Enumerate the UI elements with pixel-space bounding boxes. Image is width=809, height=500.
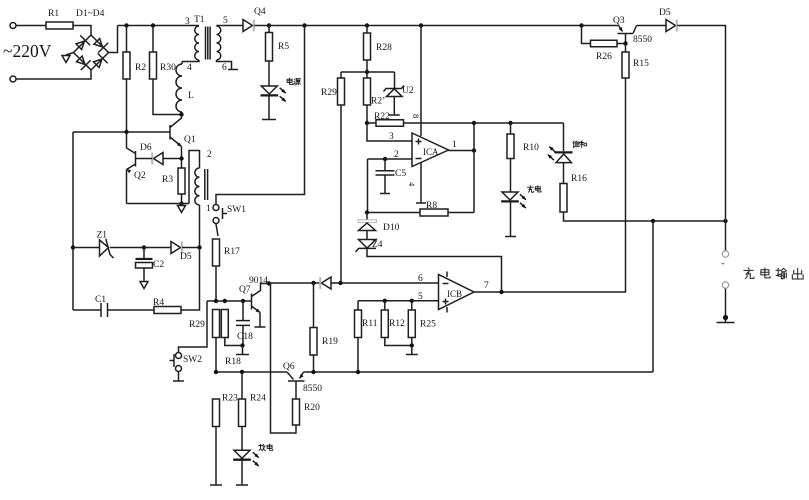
node junction Q4 output: [267, 23, 271, 27]
wire ICA output: [449, 150, 475, 152]
node junction R17 bottom / R29 top: [214, 299, 218, 303]
svg-text:C18: C18: [237, 332, 253, 342]
node junction Q3 emitter: [579, 23, 583, 27]
wire R30 top lead: [152, 26, 154, 53]
ground stub below SW2: [173, 380, 184, 382]
ground marker at bridge negative: [62, 56, 70, 63]
resistor R11: [355, 310, 362, 338]
wire bottom rail left: [216, 371, 287, 373]
node junction R28 top: [365, 23, 369, 27]
wire Z1 to C2 node: [110, 247, 144, 249]
wire junction to R29 and U2: [341, 71, 395, 73]
svg-text:R19: R19: [322, 337, 338, 347]
diode Q4: [243, 20, 253, 32]
svg-text:R4: R4: [153, 298, 164, 308]
resistor R30: [150, 52, 157, 79]
switch SW2 actuator: [173, 354, 175, 367]
node junction output negative: [723, 315, 728, 320]
wire R26 left hook: [582, 26, 591, 44]
svg-text:R2: R2: [135, 63, 146, 73]
node junction R2 bottom / Q1 base: [124, 130, 128, 134]
wire bottom loop left: [73, 309, 101, 311]
svg-text:Z4: Z4: [372, 240, 383, 250]
wire R10 to LED: [510, 159, 512, 193]
LED saturation arrows: [549, 147, 555, 153]
ground stub below discharge LED: [236, 484, 248, 486]
wire rail to saturation LED: [563, 123, 565, 151]
node junction R22 left / R27 bottom / ICA pin3: [365, 121, 369, 125]
wire ICB pin5 input: [358, 300, 439, 302]
node junction R28/R27/R29 top: [365, 70, 369, 74]
wire R28 bottom: [366, 60, 368, 78]
resistor R1: [46, 22, 73, 29]
resistor R22: [376, 120, 404, 127]
node junction Q6 emitter / R19: [311, 370, 315, 374]
node junction R25 top: [410, 299, 414, 303]
svg-text:4: 4: [187, 63, 192, 73]
node junction C18 bottom / R18: [240, 343, 244, 347]
op-amp ICB bottom tick: [446, 307, 448, 313]
wire ICA pin2 input: [368, 158, 413, 160]
bridge rectifier D1~D4 diamond: [74, 35, 109, 70]
wire bridge negative stub: [66, 53, 74, 56]
svg-text:5: 5: [223, 16, 228, 26]
node junction R30 top: [151, 23, 155, 27]
wire Q1 base net: [73, 131, 170, 133]
wire Q1 emitter to D6 node: [181, 147, 183, 159]
wire R1 to bridge top: [73, 26, 91, 36]
resistor R2: [123, 52, 130, 79]
switch SW1 blade: [216, 224, 218, 236]
node junction rail / R10 top: [508, 121, 512, 125]
transistor Q7 base bar: [251, 294, 253, 310]
winding W2 coil: [195, 168, 200, 205]
wire Q7 base net: [207, 300, 252, 302]
op-amp ICA body: [412, 133, 449, 167]
ground stub below Q7 emitter: [255, 326, 266, 328]
transistor Q6 base bar: [288, 380, 305, 382]
svg-text:R28: R28: [376, 43, 392, 53]
svg-text:R17: R17: [224, 247, 240, 257]
wire R5 to LED: [268, 61, 270, 86]
transistor Q3 collector: [633, 26, 637, 34]
wire R12 bottom lead: [385, 338, 412, 346]
transistor Q2 emitter: [127, 164, 136, 170]
node junction C18 top / Q7 base: [241, 299, 245, 303]
transformer T1 core: [205, 27, 207, 60]
svg-text:R24: R24: [250, 394, 266, 404]
node junction R11 bottom: [356, 370, 360, 374]
wire R22 left lead: [367, 122, 376, 124]
wire D10 to Z4: [366, 231, 368, 240]
wire Z4 to ICB output (hysteresis): [367, 248, 502, 292]
transistor Q1 base bar: [169, 125, 171, 140]
node junction Z1 branch: [71, 245, 75, 249]
wire W2 pin1 lead down: [199, 205, 201, 248]
wire Q4 to rail: [254, 25, 269, 27]
wire R20 to Q7 collector loop: [271, 284, 297, 434]
wire ICA pin3 input: [367, 123, 412, 141]
wire R29 bottom to rail: [215, 338, 217, 373]
svg-text:R15: R15: [633, 59, 649, 69]
svg-text:C1: C1: [95, 295, 106, 305]
label 充电输出 (charging output): [744, 268, 754, 279]
wire R8 right lead: [448, 212, 474, 214]
transformer T1 primary winding (pin3-pin4): [195, 26, 199, 60]
wire D6 anode to Q1 emitter: [163, 158, 182, 160]
op-amp ICB body: [439, 275, 475, 310]
diode D2 (bridge top-right arm): [92, 36, 108, 52]
wire pin6 net left: [269, 282, 320, 284]
wire Q2 emitter down: [126, 170, 128, 204]
node junction R29b/R23: [214, 370, 218, 374]
winding W2 pin2 hook: [189, 151, 200, 204]
wire ICB output: [474, 291, 626, 293]
diode D5 (snubber): [171, 242, 181, 254]
wire bridge output to top rail: [109, 26, 118, 53]
svg-text:Q3: Q3: [613, 16, 625, 26]
wire SW2 bottom stub: [178, 372, 180, 381]
wire ICA pin8 supply: [420, 26, 422, 137]
svg-text:Z1: Z1: [97, 231, 108, 241]
svg-text:2: 2: [394, 150, 399, 160]
LED power indicator: [261, 86, 277, 94]
wire R18 bottom lead: [225, 338, 243, 346]
op-amp ICA plus sign: [416, 141, 422, 143]
transistor Q2 collector: [127, 132, 136, 154]
label 充电 (charging): [527, 186, 533, 193]
wire reference rail: [404, 122, 564, 124]
diode D1 (bridge top-left arm): [74, 35, 90, 51]
wire pin2 to D10 node: [367, 159, 369, 213]
resistor R26: [591, 40, 618, 47]
wire R12 top lead: [384, 301, 386, 310]
wire Q3 collector to D5: [637, 25, 667, 27]
svg-text:R1: R1: [48, 9, 59, 19]
label 饱和 (saturation): [573, 141, 579, 147]
svg-text:Q1: Q1: [184, 135, 196, 145]
switch SW1 contact 1: [213, 205, 219, 211]
capacitor C5: [384, 159, 386, 171]
resistor R5: [266, 33, 273, 62]
svg-text:R22: R22: [374, 112, 390, 122]
resistor R24: [239, 399, 246, 427]
wire main top rail right: [269, 25, 619, 27]
wire R28 top lead: [366, 26, 368, 34]
diode D6: [154, 153, 164, 165]
LED saturation indicator: [555, 151, 573, 153]
node junction output positive rail: [723, 219, 727, 223]
winding W2 core: [204, 169, 206, 200]
svg-text:3: 3: [185, 17, 190, 27]
ground marker below C2: [140, 282, 148, 289]
svg-text:R2’: R2’: [371, 97, 385, 107]
svg-text:ICA: ICA: [423, 147, 439, 157]
wire main top rail left: [118, 25, 200, 27]
wire LED to ground stub: [241, 460, 243, 485]
svg-text:R18: R18: [225, 357, 241, 367]
resistor R18: [221, 310, 228, 338]
svg-text:9014: 9014: [249, 276, 268, 286]
node junction R3 bottom: [179, 201, 183, 205]
wire T1 pin4 lead: [182, 60, 199, 62]
svg-text:Q7: Q7: [239, 285, 251, 295]
wire LED to ground: [268, 96, 270, 120]
op-amp ICB plus sign: [443, 301, 449, 303]
resistor R4: [154, 307, 181, 314]
svg-text:D5: D5: [180, 252, 192, 262]
svg-text:R20: R20: [304, 403, 320, 413]
svg-text:R23: R23: [222, 394, 238, 404]
node junction ICB output / feedback: [499, 290, 503, 294]
wire output negative stub: [725, 289, 727, 323]
capacitor C18: [242, 301, 244, 320]
svg-text:ICB: ICB: [447, 289, 462, 299]
node junction R29top bottom: [338, 281, 342, 285]
wire L bottom lead: [181, 112, 184, 115]
zener U2: [394, 72, 396, 88]
wire R19 top lead: [313, 283, 315, 328]
resistor R8: [420, 209, 448, 216]
node junction Q3 base / R26 / R15: [623, 41, 627, 45]
wire R5 top lead: [268, 26, 270, 33]
svg-text:R8: R8: [426, 201, 437, 211]
switch SW2 contact 1: [176, 353, 182, 359]
wire ICA output to rail and R8: [473, 123, 475, 213]
wire R4 to riser: [181, 248, 200, 311]
wire R27 bottom lead: [366, 105, 368, 123]
svg-text:R26: R26: [596, 52, 612, 62]
wire R15 bottom long lead: [625, 78, 627, 292]
wire R15 top lead: [625, 44, 627, 53]
capacitor C1: [100, 303, 102, 317]
wire output positive drop: [725, 221, 727, 251]
wire Q7 emitter stub: [259, 313, 261, 327]
svg-text:C2: C2: [153, 260, 164, 270]
ground stub below R23: [210, 484, 222, 486]
wire L top lead: [181, 62, 183, 65]
LED discharge indicator: [234, 450, 250, 458]
transistor Q1 emitter: [170, 137, 182, 147]
wire T1 pin6 lead to ground: [217, 60, 232, 69]
wire R17 bottom lead: [215, 266, 217, 301]
wire R25 bottom lead: [411, 338, 413, 346]
wire R26 right lead: [617, 43, 626, 45]
node junction rail / ICA output feed: [472, 121, 476, 125]
svg-text:2: 2: [207, 150, 212, 160]
resistor R25: [408, 310, 415, 338]
node junction battery minus rail branch: [651, 219, 655, 223]
diode D10: [358, 220, 377, 223]
diode D11 (pin6 blocking): [322, 277, 332, 289]
svg-text:D5: D5: [659, 8, 671, 18]
wire D5 to output rail: [677, 26, 725, 222]
op-amp ICB minus sign: [443, 283, 449, 285]
resistor R15: [622, 52, 629, 78]
transistor Q2 base bar: [135, 151, 137, 167]
node junction C2 top: [142, 245, 146, 249]
wire ICA pin4 stub: [420, 163, 422, 203]
wire R25 ground stub: [411, 346, 413, 355]
svg-text:U2: U2: [402, 86, 414, 96]
wire R10 top lead: [510, 123, 512, 134]
node junction R24 top: [240, 370, 244, 374]
svg-text:R3: R3: [162, 175, 173, 185]
node junction R19 top: [311, 281, 315, 285]
svg-text:R29: R29: [321, 88, 337, 98]
svg-text:R30: R30: [160, 63, 176, 73]
LED power arrows: [280, 88, 286, 93]
svg-text:R16: R16: [571, 174, 587, 184]
wire R11 top lead: [357, 301, 359, 310]
capacitor C2 (electrolytic): [143, 248, 145, 259]
transistor Q1 collector: [170, 115, 182, 128]
LED discharge arrows: [253, 452, 259, 457]
svg-text:1: 1: [452, 140, 457, 150]
node junction op-amp pin8 branch: [419, 23, 423, 27]
node junction R18 top: [223, 299, 227, 303]
wire R24 top lead: [241, 372, 243, 399]
node junction D10 / R8 / pin2: [365, 210, 369, 214]
transistor Q3 base bar: [618, 33, 634, 35]
wire C2 node to D5: [144, 247, 171, 249]
wire AC bottom to bridge: [16, 70, 91, 79]
node junction R12 top: [383, 299, 387, 303]
wire R25 top lead: [411, 301, 413, 310]
node AC terminal 1 (top left): [10, 23, 16, 29]
svg-text:Q4: Q4: [254, 7, 266, 17]
node junction SW1 branch: [302, 23, 306, 27]
ground at T1 pin 6: [228, 69, 238, 71]
diode D4 (bridge bottom-right arm): [91, 53, 107, 69]
svg-text:R29: R29: [189, 320, 205, 330]
node output terminal - (circle): [722, 282, 728, 288]
node junction C5 top: [383, 157, 387, 161]
diode D3 (bridge bottom-left arm): [74, 54, 90, 70]
svg-text:D1~D4: D1~D4: [76, 9, 105, 19]
svg-text:R10: R10: [523, 143, 539, 153]
resistor R27: [364, 78, 371, 105]
svg-text:~220V: ~220V: [3, 41, 52, 61]
svg-text:C5: C5: [395, 169, 406, 179]
svg-text:7: 7: [484, 281, 489, 291]
wire R23 bottom lead: [215, 427, 217, 485]
transistor Q6 collector: [295, 381, 297, 399]
wire R29 top lead: [340, 72, 342, 78]
resistor R19: [310, 328, 317, 356]
ground below power LED: [262, 119, 276, 121]
svg-text:8550: 8550: [633, 35, 652, 45]
svg-text:R25: R25: [420, 320, 436, 330]
inductor L: [176, 64, 182, 112]
wire Q2 emitter loop: [127, 203, 190, 205]
op-amp ICB top tick: [446, 272, 448, 278]
svg-text:T1: T1: [194, 15, 205, 25]
node AC terminal 2 (bottom left): [10, 76, 16, 82]
transistor Q7 emitter: [252, 306, 261, 313]
wire R29 bottom long lead: [340, 105, 342, 283]
svg-text:6: 6: [418, 274, 423, 284]
wire R8 left lead: [367, 212, 420, 214]
resistor R29 (top): [338, 78, 345, 105]
wire D5 cathode to W2 pin1: [182, 247, 200, 249]
wire LED to ground stub: [510, 202, 512, 237]
wire Z1 anode lead: [73, 247, 100, 249]
ground stub below C5: [380, 193, 390, 195]
svg-text:+: +: [721, 260, 725, 268]
wire R30 bottom lead: [153, 79, 182, 115]
wire R3 top lead: [181, 159, 183, 169]
ground stub below R25: [406, 354, 418, 356]
node junction D6 / R3 / Q1 emitter: [179, 156, 183, 160]
svg-text:R11: R11: [362, 319, 378, 329]
ground stub below C18: [236, 354, 249, 356]
svg-text:R12: R12: [389, 319, 405, 329]
resistor R29 (bottom): [213, 310, 220, 338]
wire R16 bottom lead: [564, 212, 726, 221]
svg-text:L: L: [188, 91, 194, 101]
LED charge indicator: [502, 192, 518, 200]
ground stub below charge LED: [505, 236, 516, 238]
diode D5 (top): [666, 20, 676, 32]
svg-text:3: 3: [389, 132, 394, 142]
transformer T1 secondary winding (pin5-pin6): [217, 26, 221, 60]
wire T1 pin5 lead: [216, 25, 218, 28]
svg-text:Q6: Q6: [283, 362, 295, 372]
wire R2 bottom lead: [126, 79, 128, 132]
transistor Q6 base lead: [287, 372, 294, 380]
svg-text:1: 1: [206, 204, 211, 214]
svg-text:SW1: SW1: [227, 205, 246, 215]
svg-text:8550: 8550: [303, 384, 322, 394]
wire R11 bottom lead: [357, 338, 359, 373]
transistor Q6 emitter: [300, 372, 304, 379]
ground stub below U2: [389, 114, 400, 116]
wire SW2 riser: [179, 301, 208, 352]
resistor R17: [213, 239, 220, 266]
label 电源 (power): [287, 78, 293, 84]
svg-text:6: 6: [222, 63, 227, 73]
svg-text:D10: D10: [383, 223, 400, 233]
label 放电 (discharge): [259, 444, 266, 451]
switch SW1 actuator: [222, 208, 224, 219]
wire D6 cathode to Q2 base: [136, 158, 153, 160]
zener Z4: [359, 240, 377, 249]
wire AC top to R1: [16, 25, 46, 27]
resistor R10: [507, 134, 514, 159]
svg-text:R5: R5: [278, 42, 289, 52]
node junction R12/R25 bottoms: [410, 343, 414, 347]
zener Z1: [100, 240, 109, 256]
ground bar at output negative: [717, 322, 735, 324]
wire rail to SW1: [216, 26, 305, 205]
node output terminal + (circle): [722, 251, 728, 257]
LED charge arrows: [520, 194, 526, 199]
wire D10 top lead: [366, 213, 368, 220]
node junction L bottom / Q1 collector: [179, 112, 183, 116]
wire left rail: [72, 132, 74, 310]
resistor R28: [364, 33, 371, 60]
svg-text:Q2: Q2: [134, 171, 146, 181]
node junction Q7 collector / pin6 net: [267, 281, 271, 285]
wire C1 to R4: [108, 309, 155, 311]
switch SW2 contact 2: [176, 366, 182, 372]
resistor R3: [178, 168, 185, 194]
svg-text:D6: D6: [140, 143, 152, 153]
switch SW1 contact 2: [213, 218, 219, 224]
svg-text:SW2: SW2: [183, 355, 202, 365]
wire bottom rail riser: [652, 221, 654, 372]
